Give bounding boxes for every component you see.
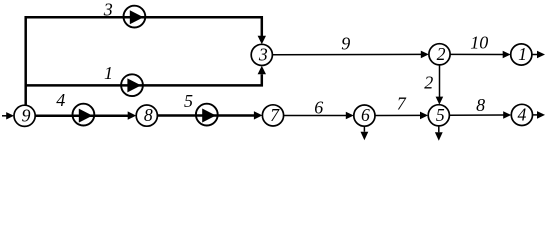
exit arrow below node 6 [361,126,369,140]
svg-text:6: 6 [361,105,370,125]
svg-text:5: 5 [184,91,193,111]
node 2 [429,44,450,65]
svg-text:6: 6 [314,98,323,118]
svg-text:7: 7 [397,93,407,113]
svg-text:2: 2 [437,44,446,64]
transfer symbol on edge 9-8 (circle with solid arrow) [73,104,95,126]
svg-text:5: 5 [436,105,445,125]
node 1 [511,44,532,65]
wire: thick edge 9 to 3 (top path, activity 3) [26,17,266,105]
wire: thick edge 9 to 3 (middle path, activity 1) [26,66,266,86]
node 7 [262,105,283,126]
wire: edge 6 to 5 (activity 7) [375,112,428,120]
svg-text:4: 4 [517,104,526,124]
transfer symbol on edge 8-7 (circle with solid arrow) [196,104,218,126]
svg-text:1: 1 [518,44,527,64]
wire: edge 5 to 4 (activity 8) [449,111,511,119]
node 9 [14,105,35,126]
wire: edge 2 to 1 (activity 10) [450,51,511,59]
svg-text:10: 10 [470,33,488,53]
node 4 [511,104,532,125]
exit arrow from node 4 [533,111,546,119]
wire: edge 2 to 5 (activity 2) [436,65,444,105]
node 8 [136,105,157,126]
node 5 [428,105,449,126]
svg-text:9: 9 [341,33,350,53]
entry arrow into node 9 [2,112,14,119]
svg-text:2: 2 [424,72,433,92]
svg-text:8: 8 [144,105,153,125]
wire: thick edge 8 to 7 (activity 5) [157,111,262,119]
svg-text:4: 4 [56,90,65,110]
svg-text:7: 7 [270,105,280,125]
svg-text:1: 1 [104,63,113,83]
svg-text:3: 3 [258,44,268,64]
wire: edge 3 to 2 (activity 9) [272,51,428,59]
transfer symbol on middle edge (circle with solid arrow) [121,74,143,96]
node 3 [251,44,272,65]
exit arrow below node 5 [435,126,443,141]
svg-text:3: 3 [103,0,113,19]
wire: thick edge 9 to 8 (activity 4) [35,111,136,119]
svg-text:8: 8 [476,95,485,115]
node 6 [354,105,375,126]
exit arrow from node 1 [532,51,545,59]
wire: edge 7 to 6 (activity 6) [284,112,354,120]
transfer symbol on top edge (circle with solid arrow) [123,6,145,28]
svg-text:9: 9 [22,105,31,125]
